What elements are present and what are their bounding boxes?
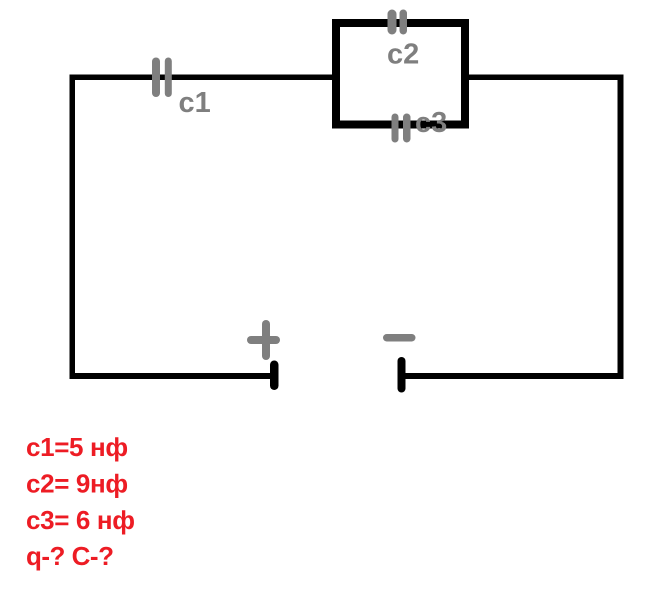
parallel branch box — [336, 23, 465, 125]
battery positive plate — [270, 361, 279, 391]
svg-text:c2= 9нф: c2= 9нф — [26, 469, 128, 499]
wire top right segment (from parallel box) — [468, 75, 624, 81]
svg-text:c2: c2 — [387, 39, 419, 71]
wire top left segment (to parallel box) — [70, 75, 333, 81]
wire bottom right segment (from battery -) — [405, 373, 624, 379]
minus sign — [383, 334, 416, 342]
capacitor C1 — [152, 58, 172, 98]
svg-text:c1: c1 — [179, 87, 211, 119]
capacitor C3 — [392, 114, 411, 143]
wire right side of loop — [618, 75, 624, 380]
wire left side of loop — [70, 75, 76, 380]
battery negative plate — [398, 357, 406, 393]
capacitor C2 — [388, 10, 408, 35]
svg-text:c3: c3 — [415, 107, 447, 139]
plus sign — [247, 320, 280, 360]
wire bottom left segment (to battery +) — [70, 373, 271, 379]
svg-text:c1=5 нф: c1=5 нф — [26, 432, 128, 462]
svg-text:c3= 6 нф: c3= 6 нф — [26, 505, 135, 535]
svg-text:q-? C-?: q-? C-? — [26, 541, 113, 571]
